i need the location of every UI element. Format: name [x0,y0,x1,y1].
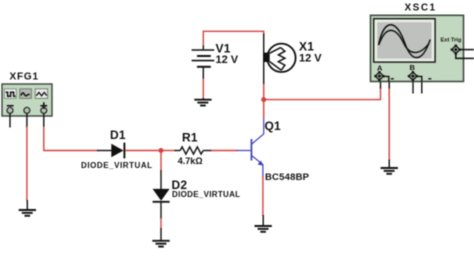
function generator XFG1 [2,84,52,116]
ground below scope [381,160,398,174]
svg-text:12 V: 12 V [299,53,322,65]
wire D1 cathode to node [125,150,162,152]
wire V1 positive to lamp X1 [203,31,263,45]
wire lamp branch (black segment) [263,34,265,86]
svg-text:Ext Trig: Ext Trig [441,38,462,44]
pin scope B plus (stub) [412,81,414,94]
pin XFG1 minus (stub) [9,114,11,128]
wire lamp to collector node [263,84,265,100]
svg-text:R1: R1 [182,131,198,145]
pin R1 left [175,150,181,152]
wire V1 negative to ground [202,79,204,99]
junction node D1/D2/R1 [159,148,164,153]
terminal A [374,71,394,82]
resistor R1 [180,147,203,154]
wire D2 cathode to ground [160,218,162,229]
battery V1 [192,45,215,80]
wire node to scope channel A [264,88,381,100]
pin scope A plus [380,81,382,89]
pin D1 anode [97,150,112,152]
wire node to R1 [161,150,176,152]
svg-text:DIODE_VIRTUAL: DIODE_VIRTUAL [81,161,153,170]
diode D1 [111,143,124,159]
pin scope A minus [388,81,390,89]
pin Ext Trig minus [456,53,474,58]
wire XFG1 com to ground [26,127,28,201]
junction node collector/lamp/scope [261,97,266,102]
terminal B [408,71,432,82]
pin D2 anode [160,170,162,190]
diode D2 [153,189,170,202]
pin XFG1 com [26,114,28,128]
oscilloscope XSC1 [371,15,464,81]
svg-text:4.7kΩ: 4.7kΩ [178,156,203,166]
pin XFG1 plus [43,114,45,128]
wire Q1 collector to lamp node [263,100,265,119]
svg-text:B: B [410,63,416,72]
svg-text:X1: X1 [299,40,314,54]
svg-text:D1: D1 [110,128,126,142]
pin R1 right [203,150,212,152]
wire XFG1 plus to D1 anode [44,127,98,151]
wire node to D2 anode [160,151,162,172]
ground below Q1 emitter [255,215,272,232]
ground below XFG1 [19,200,36,216]
pin Ext Trig plus [459,49,474,51]
pin scope B minus (stub) [421,81,423,94]
transistor Q1 [237,118,264,178]
svg-text:DIODE_VIRTUAL: DIODE_VIRTUAL [172,190,240,199]
ground below V1 [194,98,211,106]
wire scope A minus to ground [388,88,390,161]
svg-text:12 V: 12 V [216,54,239,66]
pin D2 cathode [160,203,162,220]
wire Q1 emitter to ground [262,177,264,217]
svg-text:XSC1: XSC1 [405,3,437,14]
ground below D2 [152,228,169,247]
lamp X1 [263,44,295,72]
svg-text:A: A [377,63,383,72]
svg-text:Q1: Q1 [265,119,282,133]
svg-text:XFG1: XFG1 [10,72,39,83]
terminal Ext Trig [451,45,461,55]
wire R1 to Q1 base [211,150,238,152]
svg-text:BC548BP: BC548BP [265,172,310,183]
